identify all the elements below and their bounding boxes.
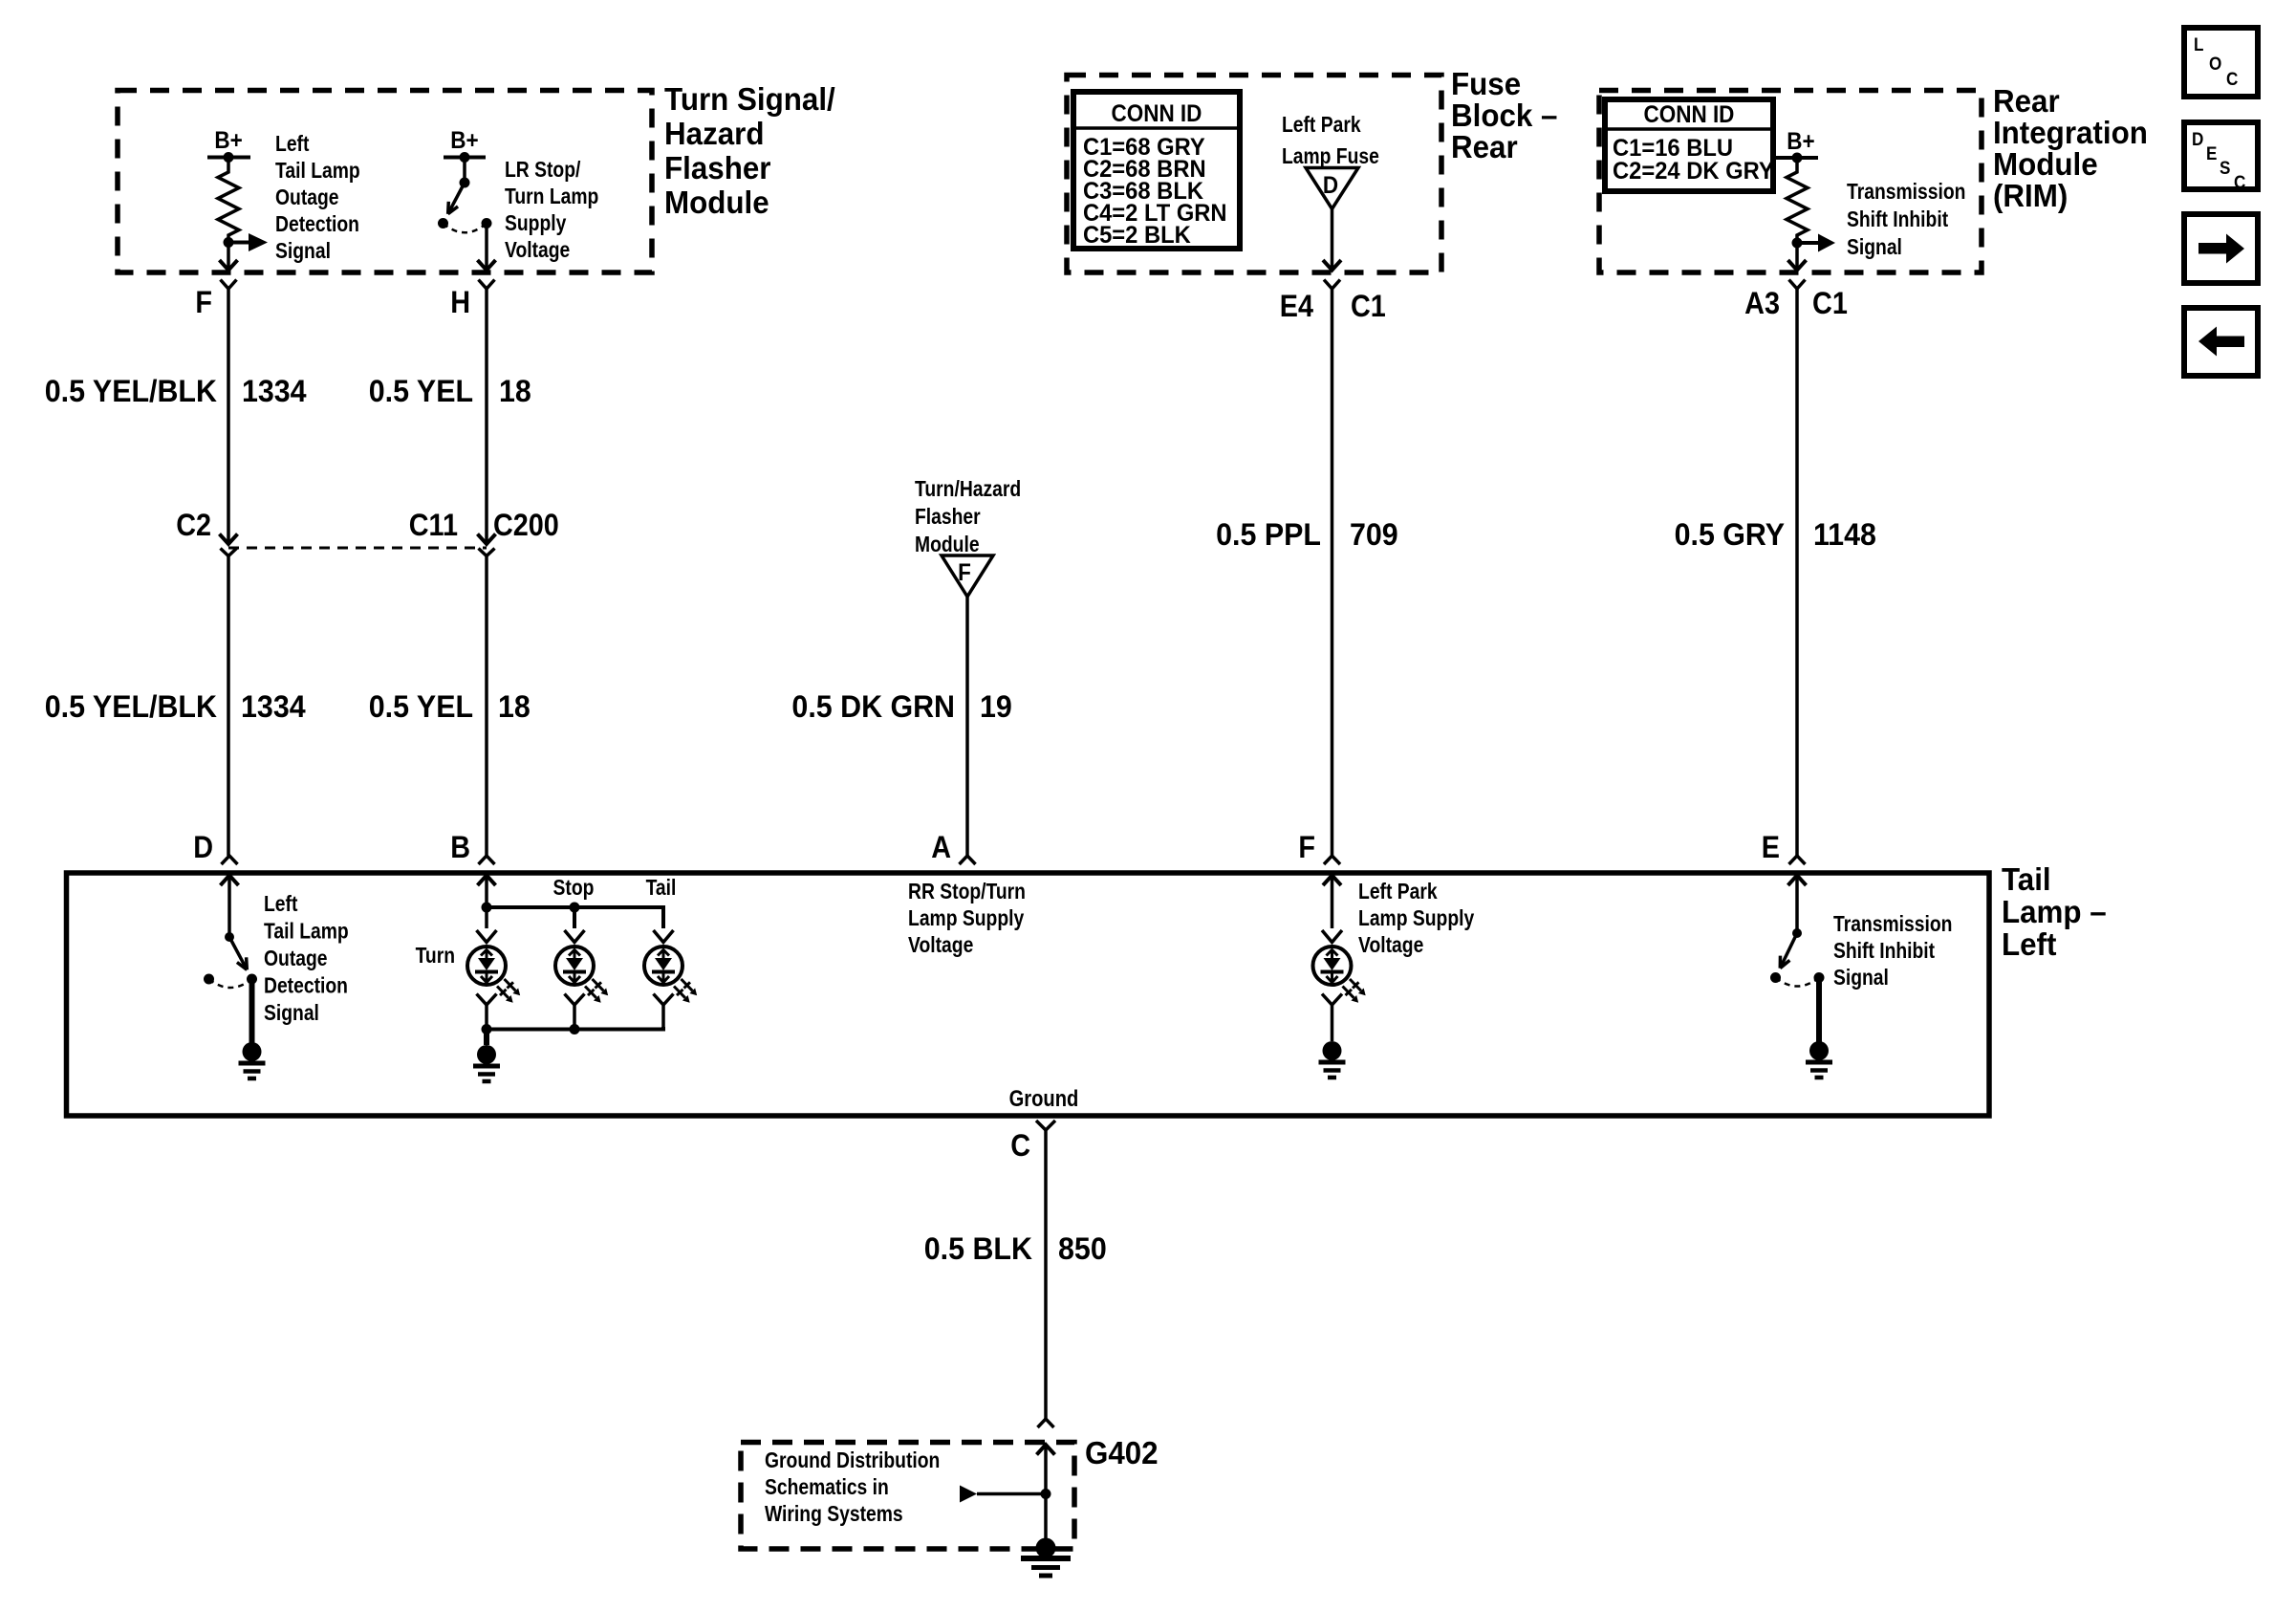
wire: bus to ground [484,1030,489,1046]
label: Rear Integration Module (RIM) [1993,83,2148,213]
svg-text:850: 850 [1058,1231,1107,1266]
svg-text:Tail Lamp: Tail Lamp [264,920,349,944]
svg-text:Hazard: Hazard [664,116,764,151]
connector arrow inside pin D [221,876,239,886]
svg-text:Turn Lamp: Turn Lamp [505,185,598,209]
connector fork entering pin E [1789,856,1806,864]
svg-text:A: A [931,831,951,865]
connector fork entering pin D [222,856,238,864]
bulb turn [467,947,506,985]
connector fork above park bulb [1322,930,1342,943]
svg-text:Voltage: Voltage [1358,934,1423,958]
connector fork at pin F [221,280,237,290]
node: R2 output junction [1792,238,1803,249]
svg-text:Signal: Signal [275,240,331,264]
node: bus junction B [482,903,492,913]
label: Left Tail Lamp Outage Detection Signal (box) [264,893,349,1026]
svg-text:C1: C1 [1351,290,1386,324]
connector fork at C2 [221,549,237,556]
node: ground bus junction turn [482,1024,492,1034]
wire: pin F into box [1331,876,1334,929]
svg-text:Ground Distribution: Ground Distribution [765,1449,940,1473]
svg-text:Left: Left [264,893,297,917]
svg-text:Wiring Systems: Wiring Systems [765,1503,903,1527]
ground (left switch) [243,1042,262,1061]
switch S3 transmission shift inhibit [1792,928,1802,938]
connector fork below park bulb [1322,994,1342,1006]
light rays park [1347,976,1369,999]
resistor R1 tail lamp outage detection [218,158,239,243]
switch S2 left tail lamp outage [225,932,234,942]
wire: pin C to G402 (0.5 BLK 850) [1044,1130,1048,1419]
svg-text:Tail: Tail [2002,861,2051,897]
svg-text:E: E [2206,143,2217,163]
connector fork below tail bulb [654,994,674,1006]
connector fork entering pin B [479,856,495,864]
connector arrow at A3 [1788,260,1807,271]
light rays turn [501,976,523,999]
svg-text:C2: C2 [176,509,211,543]
svg-text:0.5 BLK: 0.5 BLK [924,1231,1033,1266]
CONN ID table (RIM) [1605,99,1773,191]
svg-text:Lamp Supply: Lamp Supply [1358,907,1474,931]
label: Left Park Lamp Fuse [1282,114,1379,169]
connector fork below stop bulb [565,994,585,1006]
nav arrow right [2199,243,2227,254]
svg-text:1334: 1334 [241,689,306,724]
wire: C2 to pin D [227,556,230,857]
arrow: transmission shift inhibit signal [1797,241,1818,245]
svg-text:C1: C1 [1812,287,1848,321]
svg-text:Integration: Integration [1993,115,2148,150]
bulb left park [1313,947,1352,985]
svg-text:C200: C200 [493,509,559,543]
dashed connector line C2-C200 [228,547,487,550]
wire: switch to pin H [485,224,488,270]
svg-text:Left Park: Left Park [1358,881,1438,904]
fuse D (Left Park Lamp Fuse) [1306,168,1358,209]
svg-text:B+: B+ [1787,128,1814,155]
connector fork above tail bulb [654,930,674,943]
wire: junction to ground G402 [1044,1494,1048,1540]
svg-text:B+: B+ [450,127,478,154]
light rays stop [589,976,611,999]
svg-text:Outage: Outage [275,186,339,210]
label: Left Park Lamp Supply Voltage [1358,881,1474,958]
svg-text:B: B [450,831,470,865]
svg-text:H: H [450,286,470,320]
svg-text:E: E [1762,831,1780,865]
svg-text:F: F [195,286,212,320]
svg-text:Turn Signal/: Turn Signal/ [664,81,835,117]
svg-text:Ground: Ground [1009,1085,1079,1111]
svg-text:B+: B+ [214,127,242,154]
svg-text:Flasher: Flasher [664,150,771,185]
connector arrow inside pin F [1323,876,1341,886]
module box: Fuse Block - Rear [1067,76,1441,273]
wire: A3 to pin E of tail lamp [1795,294,1799,856]
svg-text:Detection: Detection [264,974,348,998]
svg-text:Module: Module [664,185,769,220]
svg-text:18: 18 [498,689,531,724]
svg-text:0.5 YEL/BLK: 0.5 YEL/BLK [45,689,218,724]
svg-text:A3: A3 [1744,287,1780,321]
wire: pin D to switch [227,876,231,938]
connector fork at E4 [1324,280,1340,290]
svg-text:G402: G402 [1085,1435,1159,1470]
svg-text:F: F [1298,831,1315,865]
svg-text:Shift Inhibit: Shift Inhibit [1847,208,1948,232]
svg-text:Tail Lamp: Tail Lamp [275,160,360,184]
svg-text:Left: Left [2002,926,2057,962]
label: Turn Signal/Hazard Flasher Module [664,81,835,220]
connector fork below turn bulb [477,994,497,1006]
connector arrow inside pin B [478,876,496,886]
svg-text:C11: C11 [409,509,458,543]
wire: pin F to C2 [227,294,230,543]
resistor R2 transmission shift inhibit [1787,158,1808,243]
bulb tail [644,947,682,985]
nav arrow left [2216,337,2244,348]
svg-text:Tail: Tail [646,877,677,901]
label: RR Stop/Turn Lamp Supply Voltage [908,881,1026,958]
wire: pin H to C200 [485,294,488,543]
svg-text:D: D [1323,172,1338,199]
node: bus junction stop [570,903,580,913]
wire: switch to ground (left) [249,979,255,1043]
svg-text:L: L [2194,34,2203,54]
wire: junction to pin A3 [1795,243,1799,269]
connector arrow inside G402 [1037,1445,1055,1455]
connector arrow at pin H [478,260,496,271]
wire: junction to pin F [227,243,230,270]
light rays tail [678,976,700,999]
svg-text:Turn/Hazard: Turn/Hazard [915,478,1021,502]
svg-text:CONN ID: CONN ID [1644,101,1735,128]
svg-text:LR Stop/: LR Stop/ [505,159,580,183]
module box: Ground Distribution G402 [741,1443,1074,1550]
wire: G402 entry to junction [1044,1445,1048,1494]
svg-text:0.5 YEL: 0.5 YEL [369,374,473,408]
svg-text:1148: 1148 [1813,517,1876,552]
svg-text:Schematics in: Schematics in [765,1476,889,1500]
label: Transmission Shift Inhibit Signal (box) [1833,913,1952,991]
svg-text:18: 18 [499,374,531,408]
module box: Turn Signal/Hazard Flasher Module [118,91,652,273]
svg-text:Voltage: Voltage [908,934,973,958]
svg-text:0.5 GRY: 0.5 GRY [1675,517,1786,552]
label: Left Tail Lamp Outage Detection Signal [275,133,360,264]
connector arrow at E4 [1323,260,1341,271]
connector arrow at C11 [478,534,496,545]
label: Tail Lamp - Left [2002,861,2107,962]
node: ground bus junction stop [570,1024,580,1034]
wire: switch to ground (right) [1816,978,1822,1043]
connector triangle F (turn/hazard flasher module) [942,555,993,597]
bus: bulb ground [487,1027,663,1030]
CONN ID rows (RIM) [1613,135,1774,185]
svg-text:Rear: Rear [1451,129,1518,164]
svg-text:C5=2 BLK: C5=2 BLK [1083,222,1191,249]
svg-text:Shift Inhibit: Shift Inhibit [1833,940,1935,964]
wire: C200 to pin B [485,556,488,857]
connector fork at pin H [479,280,495,290]
svg-text:Block –: Block – [1451,98,1557,133]
svg-text:Transmission: Transmission [1833,913,1952,937]
svg-text:Signal: Signal [1847,236,1902,260]
svg-text:C: C [2226,69,2238,89]
svg-text:Lamp –: Lamp – [2002,894,2107,929]
label: Fuse Block - Rear [1451,66,1557,164]
svg-text:S: S [2220,158,2230,178]
connector fork at G402 entry [1038,1419,1054,1427]
svg-text:Stop: Stop [553,877,595,901]
arrow: ground distribution reference [960,1486,977,1503]
svg-text:709: 709 [1350,517,1398,552]
connector fork entering pin F [1324,856,1340,864]
svg-text:Left: Left [275,133,309,157]
svg-text:Flasher: Flasher [915,506,981,530]
connector arrow at C2 [220,534,238,545]
svg-text:O: O [2209,54,2221,74]
svg-text:Voltage: Voltage [505,239,570,263]
wire: fuse to pin E4 [1331,209,1334,270]
node: R1 output junction [224,237,234,248]
svg-text:C2=24 DK GRY: C2=24 DK GRY [1613,158,1774,185]
label: Transmission Shift Inhibit Signal (RIM) [1847,181,1965,260]
svg-text:Rear: Rear [1993,83,2060,119]
connector arrow inside pin E [1788,876,1807,886]
svg-text:C: C [1010,1129,1030,1164]
CONN ID table (fuse block) [1073,92,1240,249]
svg-text:Turn: Turn [416,945,455,969]
switch S1 LR stop/turn [463,158,466,184]
ground (bulb trio) [477,1045,496,1064]
svg-text:0.5 PPL: 0.5 PPL [1216,517,1321,552]
wire: E4 to pin F of tail lamp [1331,294,1334,856]
label: LR Stop/Turn Lamp Supply Voltage [505,159,598,263]
connector fork at pin C [1036,1121,1055,1130]
nav box LOC [2184,28,2258,97]
connector fork at A3 [1789,280,1806,290]
svg-text:Lamp Fuse: Lamp Fuse [1282,145,1379,169]
connector fork above turn bulb [477,930,497,943]
label: Ground Distribution Schematics in Wiring Systems [765,1449,940,1527]
svg-text:Lamp Supply: Lamp Supply [908,907,1024,931]
svg-text:(RIM): (RIM) [1993,178,2068,213]
nav box arrow left [2184,308,2258,376]
wire: triangle F to pin A [965,597,969,856]
svg-text:Module: Module [1993,146,2098,182]
svg-text:19: 19 [980,689,1012,724]
node: G402 junction [1041,1489,1051,1499]
nav box DESC [2184,122,2258,189]
svg-text:Signal: Signal [264,1002,319,1026]
svg-text:F: F [958,559,971,586]
svg-text:E4: E4 [1280,290,1313,324]
svg-text:D: D [193,831,213,865]
connector fork entering pin A [960,856,976,864]
bus: bulb supply [487,907,663,928]
svg-text:D: D [2192,129,2203,149]
svg-text:Outage: Outage [264,947,328,971]
svg-text:0.5 YEL: 0.5 YEL [369,689,473,724]
wire: pin B into box [485,876,488,929]
svg-text:0.5 YEL/BLK: 0.5 YEL/BLK [45,374,218,408]
svg-text:1334: 1334 [242,374,307,408]
arrow: outage detection signal [228,241,249,245]
module box: Rear Integration Module (RIM) [1599,91,1982,273]
ground (park bulb) [1323,1041,1342,1060]
connector arrow at pin F [220,260,238,271]
svg-text:Detection: Detection [275,213,359,237]
connector fork at C200 [479,549,495,556]
svg-text:Left Park: Left Park [1282,114,1361,138]
ground G402 [1036,1538,1056,1558]
svg-text:0.5 DK GRN: 0.5 DK GRN [791,689,955,724]
svg-text:Transmission: Transmission [1847,181,1965,205]
bulb stop [555,947,594,985]
wire: pin E to switch [1795,876,1799,934]
svg-text:Fuse: Fuse [1451,66,1521,101]
svg-text:C: C [2234,172,2245,192]
nav box arrow right [2184,214,2258,283]
component box: Tail Lamp - Left [67,873,1990,1116]
ground (right switch) [1809,1041,1829,1060]
svg-text:RR Stop/Turn: RR Stop/Turn [908,881,1026,904]
svg-text:Signal: Signal [1833,967,1889,991]
CONN ID rows (fuse block) [1083,134,1227,249]
svg-text:Supply: Supply [505,212,567,236]
svg-text:CONN ID: CONN ID [1111,100,1202,127]
connector fork above stop bulb [565,930,585,943]
svg-text:Module: Module [915,533,980,557]
label: Turn/Hazard Flasher Module [915,478,1021,557]
